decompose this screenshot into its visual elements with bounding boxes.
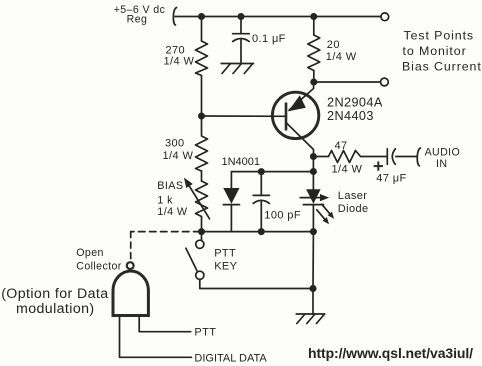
svg-text:BIAS: BIAS	[157, 180, 183, 192]
wire 1N4001 top lead	[231, 172, 313, 188]
wire 47uF to audio bracket	[396, 156, 417, 158]
test point terminal TP1	[381, 13, 389, 21]
svg-text:1/4 W: 1/4 W	[163, 150, 194, 162]
laser diode cathode bar	[303, 204, 323, 206]
svg-text:to Monitor: to Monitor	[403, 44, 467, 58]
svg-text:2N4403: 2N4403	[327, 109, 374, 123]
svg-text:47 μF: 47 μF	[376, 172, 406, 184]
svg-text:DIGITAL DATA: DIGITAL DATA	[194, 352, 267, 364]
wire pot bottom	[201, 217, 203, 232]
svg-text:IN: IN	[436, 158, 447, 170]
resistor 47 (horizontal)	[313, 151, 387, 163]
node laser bottom	[310, 228, 317, 235]
wire 20 bottom lead	[313, 71, 315, 83]
svg-text:0.1 μF: 0.1 μF	[252, 33, 286, 45]
wire 270 bottom lead	[201, 76, 203, 117]
NAND gate bubble	[127, 262, 134, 269]
ground symbol bottom	[296, 314, 324, 324]
svg-text:KEY: KEY	[214, 260, 237, 272]
wire 1N4001 bottom lead	[230, 205, 232, 232]
capacitor 0.1uF plates	[233, 34, 250, 42]
svg-text:100 pF: 100 pF	[264, 210, 301, 222]
svg-text:1/4 W: 1/4 W	[326, 51, 357, 63]
svg-text:1/4 W: 1/4 W	[332, 164, 363, 176]
label Open Collector	[76, 247, 121, 273]
laser emission arrow 2	[317, 210, 329, 225]
wire base lead	[202, 115, 287, 117]
connector bracket at +5-6V input	[173, 8, 176, 26]
wire top rail	[175, 16, 381, 18]
svg-text:Collector: Collector	[76, 261, 121, 273]
wire ground node down	[312, 289, 314, 315]
wire laser diode bottom lead	[312, 205, 314, 232]
resistor 270	[196, 41, 208, 76]
dashed option wire	[131, 232, 200, 262]
node top rail / 0.1uF branch	[238, 13, 245, 20]
label AUDIO IN	[425, 147, 461, 170]
laser diode horizontal arrow	[300, 194, 329, 201]
svg-text:1N4001: 1N4001	[222, 156, 261, 168]
connector bracket AUDIO IN	[417, 148, 420, 166]
label 270 1/4 W	[164, 45, 195, 68]
resistor 300	[196, 116, 208, 171]
node collector / 47 resistor	[310, 153, 317, 160]
svg-text:PTT: PTT	[194, 327, 216, 339]
svg-text:Test Points: Test Points	[404, 29, 475, 43]
label 300 1/4 W	[163, 137, 194, 162]
node base / left branch	[198, 113, 205, 120]
svg-text:1/4 W: 1/4 W	[157, 206, 188, 218]
svg-text:modulation): modulation)	[16, 301, 95, 317]
wire 100pF bottom lead	[260, 202, 262, 232]
label 20 1/4 W	[326, 39, 357, 63]
wire 270 top lead	[201, 17, 203, 42]
label (Option for Data modulation)	[1, 286, 108, 317]
capacitor 100pF plates	[253, 195, 269, 203]
node top rail / 20 branch	[310, 13, 317, 20]
svg-text:47: 47	[335, 140, 348, 152]
NAND gate body	[113, 271, 148, 315]
wire bottom rail	[202, 231, 314, 233]
node 100pF bottom	[258, 228, 265, 235]
node pot / bottom rail / switch	[198, 228, 205, 235]
node top rail / 270 branch	[198, 13, 205, 20]
wire 20 top lead	[313, 17, 315, 36]
potentiometer arrow	[184, 178, 210, 219]
svg-text:Diode: Diode	[338, 203, 369, 215]
transistor emitter arrow (PNP)	[288, 95, 306, 111]
node diode net top at laser column	[310, 168, 317, 175]
wire laser column to ground node	[312, 232, 314, 289]
switch lever	[186, 248, 197, 270]
transistor emitter lead	[289, 82, 314, 110]
label PTT KEY	[214, 248, 237, 273]
label 2N2904A 2N4403	[327, 95, 383, 123]
node emitter / TP2	[310, 79, 317, 86]
svg-text:2N2904A: 2N2904A	[327, 95, 383, 109]
wire NAND input right (PTT)	[139, 317, 191, 332]
diode 1N4001	[223, 188, 239, 205]
wire switch top lead	[201, 232, 203, 241]
svg-text:Reg: Reg	[127, 13, 148, 25]
label +5-6 V dc Reg	[114, 4, 166, 26]
transistor Q1 circle	[272, 92, 318, 138]
wire laser diode top lead	[312, 157, 314, 190]
switch terminal top	[196, 240, 204, 248]
capacitor 47uF plates	[387, 149, 395, 165]
label Laser Diode	[338, 190, 369, 215]
svg-text:20: 20	[327, 39, 340, 51]
label BIAS 1k 1/4W	[157, 180, 188, 218]
svg-text:Open: Open	[76, 247, 104, 259]
ground for 0.1uF	[221, 64, 253, 74]
svg-text:Bias Current: Bias Current	[402, 59, 482, 73]
resistor 20	[308, 35, 320, 71]
transistor collector lead	[286, 123, 313, 157]
wire 300 to pot	[201, 171, 203, 181]
svg-text:300: 300	[165, 137, 185, 149]
wire NAND input left (digital data)	[120, 317, 192, 358]
laser emission arrow 1	[322, 204, 334, 219]
svg-text:(Option for Data: (Option for Data	[1, 286, 108, 302]
laser diode triangle	[306, 189, 320, 204]
wire 0.1uF bottom lead	[240, 40, 242, 64]
node diode net top at 100pF	[258, 168, 265, 175]
wire 100pF top lead	[260, 172, 262, 196]
wire switch bottom to ground node	[200, 280, 313, 289]
svg-text:http://www.qsl.net/va3iul/: http://www.qsl.net/va3iul/	[308, 345, 473, 361]
node ground junction	[309, 285, 316, 292]
switch terminal bottom	[196, 271, 204, 279]
svg-text:1 k: 1 k	[157, 194, 173, 206]
svg-text:PTT: PTT	[214, 248, 236, 260]
svg-text:Laser: Laser	[338, 190, 368, 202]
svg-text:1/4 W: 1/4 W	[164, 56, 195, 68]
potentiometer BIAS 1k body	[196, 181, 208, 217]
plus sign for 47uF	[374, 162, 383, 171]
capacitor C 0.1uF top lead	[240, 17, 242, 34]
transistor base bar	[285, 103, 288, 131]
test point terminal TP2	[381, 78, 389, 86]
wire to test point 2	[314, 81, 381, 83]
label Test Points to Monitor Bias Current	[402, 29, 482, 74]
